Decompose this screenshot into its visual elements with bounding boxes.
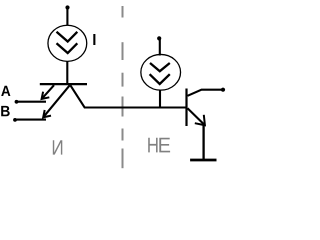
power terminal (left) xyxy=(65,5,69,25)
input B label xyxy=(1,106,10,116)
ground xyxy=(190,159,216,162)
transistor VT2 emitter xyxy=(188,108,205,160)
wire: source I2 to output wire xyxy=(159,90,161,109)
node A dot xyxy=(15,100,19,104)
wire A xyxy=(17,101,47,103)
input A label xyxy=(1,86,10,96)
wire: source I1 to base bar xyxy=(66,61,68,84)
transistor VT1 collector xyxy=(70,85,185,107)
transistor VT2 base bar xyxy=(185,89,187,127)
transistor VT1 emitter 1 xyxy=(42,85,54,99)
boundary dashed line xyxy=(122,6,124,168)
label НЕ xyxy=(148,138,170,153)
node B dot xyxy=(13,118,17,122)
label I xyxy=(93,34,95,45)
transistor VT2 collector xyxy=(188,88,226,96)
transistor VT1 (multi-emitter) base bar xyxy=(40,83,87,85)
current source I1 xyxy=(48,25,87,61)
transistor VT1 emitter 2 xyxy=(43,85,70,117)
label И xyxy=(53,140,63,154)
power terminal (right) xyxy=(157,36,161,55)
current source I2 xyxy=(141,54,181,90)
wire B xyxy=(15,119,46,121)
